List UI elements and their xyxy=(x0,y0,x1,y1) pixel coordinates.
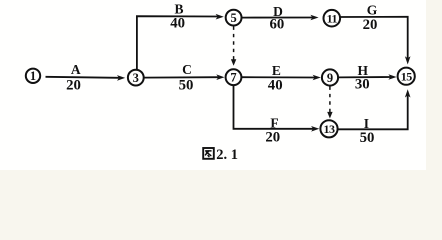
caption glyph 图 (drawn) xyxy=(203,148,214,159)
node 11 xyxy=(324,10,341,27)
svg-text:30: 30 xyxy=(355,77,370,93)
arrowhead I into 15 (up) xyxy=(405,89,411,97)
svg-text:40: 40 xyxy=(170,15,185,31)
svg-text:2. 1: 2. 1 xyxy=(216,147,238,163)
wire E: 7 to 9 xyxy=(242,76,316,78)
svg-text:13: 13 xyxy=(324,122,336,136)
svg-text:H: H xyxy=(358,63,369,78)
node 7 xyxy=(226,69,242,85)
wire H: 9 to 15 xyxy=(338,76,391,78)
svg-text:15: 15 xyxy=(401,69,413,83)
node 1 xyxy=(26,69,40,83)
node 13 xyxy=(320,120,337,137)
arrowhead C into 7 xyxy=(216,74,224,80)
svg-text:20: 20 xyxy=(363,17,378,33)
arrowhead B into 5 xyxy=(216,14,224,20)
wire F: down from node 7 then right to 13 xyxy=(234,85,314,129)
svg-text:I: I xyxy=(364,116,369,131)
arrowhead dummy into 7 (down) xyxy=(231,59,236,66)
arrowhead F into 13 xyxy=(311,126,319,132)
wire B vertical: up from node 3 xyxy=(137,16,219,70)
svg-text:G: G xyxy=(367,2,378,17)
page background xyxy=(0,0,442,176)
svg-text:50: 50 xyxy=(360,130,375,146)
node 5 xyxy=(226,10,242,26)
dummy arrow 9 to 13 (dashed) xyxy=(329,87,331,113)
wire A: 1 to 3 xyxy=(46,77,120,78)
wire D: 5 to 11 xyxy=(242,17,313,19)
scanned white area xyxy=(0,0,426,170)
node 3 xyxy=(128,70,144,86)
arrowhead G into 15 (down) xyxy=(405,56,411,64)
svg-text:20: 20 xyxy=(66,77,81,93)
arrowhead dummy into 13 (down) xyxy=(327,112,332,119)
wire I: right from 13 then up to 15 xyxy=(338,95,408,129)
svg-text:C: C xyxy=(182,62,192,77)
svg-text:5: 5 xyxy=(230,11,236,25)
svg-text:1: 1 xyxy=(30,69,36,83)
svg-text:60: 60 xyxy=(270,16,285,32)
wire C: 3 to 7 xyxy=(144,76,219,78)
svg-text:9: 9 xyxy=(327,71,333,85)
arrowhead E into 9 xyxy=(313,75,321,81)
svg-text:A: A xyxy=(71,62,81,77)
dummy arrow 5 to 7 (dashed) xyxy=(233,27,235,61)
svg-text:3: 3 xyxy=(133,71,139,85)
wire G: right from 11 then down to 15 xyxy=(340,17,408,59)
node 9 xyxy=(322,69,338,85)
arrowhead H into 15 xyxy=(388,74,396,80)
svg-text:40: 40 xyxy=(268,77,283,93)
svg-text:20: 20 xyxy=(265,129,280,145)
arrowhead D into 11 xyxy=(310,15,318,21)
node 15 xyxy=(398,68,415,85)
arrowhead A into 3 xyxy=(117,75,125,81)
svg-text:11: 11 xyxy=(327,11,338,25)
svg-text:50: 50 xyxy=(179,77,194,93)
svg-text:7: 7 xyxy=(230,71,236,85)
svg-text:E: E xyxy=(272,63,281,78)
